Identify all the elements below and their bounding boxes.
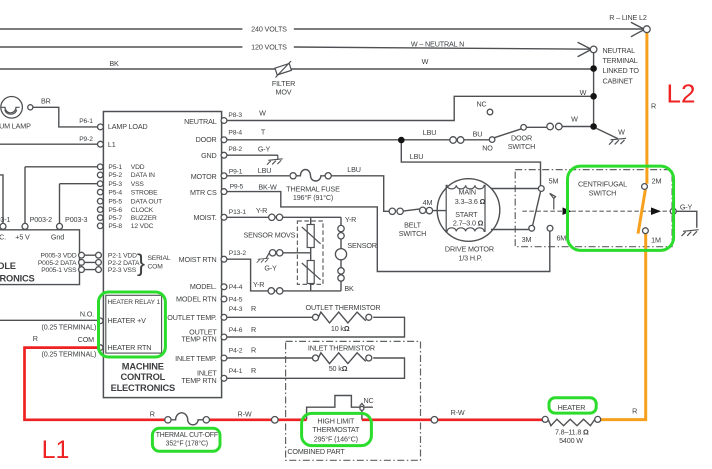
- svg-text:G-Y: G-Y: [258, 144, 271, 153]
- svg-text:BR: BR: [41, 97, 51, 106]
- svg-text:P4-1: P4-1: [229, 368, 243, 375]
- svg-text:G-Y: G-Y: [680, 203, 693, 212]
- svg-text:G-Y: G-Y: [264, 264, 277, 273]
- svg-text:P8-2: P8-2: [228, 146, 242, 153]
- svg-text:TEMP RTN: TEMP RTN: [181, 376, 216, 385]
- svg-text:MOV: MOV: [276, 87, 292, 96]
- svg-text:VDD: VDD: [131, 164, 145, 171]
- svg-text:L1: L1: [108, 140, 116, 149]
- svg-text:5M: 5M: [549, 177, 559, 186]
- svg-text:P5-7: P5-7: [108, 215, 122, 222]
- svg-text:P8-3: P8-3: [228, 112, 242, 119]
- svg-text:CLOCK: CLOCK: [131, 207, 154, 214]
- svg-text:HEATER RELAY 1: HEATER RELAY 1: [108, 299, 161, 306]
- svg-text:T: T: [261, 128, 266, 137]
- svg-text:P9-1: P9-1: [229, 168, 243, 175]
- svg-text:BU: BU: [473, 129, 483, 138]
- svg-text:W: W: [422, 57, 429, 66]
- svg-text:P4-5: P4-5: [229, 296, 243, 303]
- svg-text:TEMP RTN: TEMP RTN: [181, 335, 216, 344]
- svg-text:R: R: [150, 409, 155, 418]
- svg-text:LBU: LBU: [258, 166, 272, 175]
- svg-text:196°F (91°C): 196°F (91°C): [293, 193, 333, 202]
- svg-text:DOOR: DOOR: [196, 135, 217, 144]
- svg-text:240 VOLTS: 240 VOLTS: [251, 25, 287, 34]
- svg-text:Gnd: Gnd: [51, 233, 64, 242]
- svg-text:OUTLET THERMISTOR: OUTLET THERMISTOR: [306, 303, 381, 312]
- svg-text:4M: 4M: [423, 198, 433, 207]
- svg-text:P6-1: P6-1: [79, 118, 93, 125]
- svg-text:ELECTRONICS: ELECTRONICS: [0, 273, 35, 283]
- svg-text:SENSOR MOVS: SENSOR MOVS: [243, 231, 295, 240]
- svg-text:P9-5: P9-5: [230, 183, 244, 190]
- svg-text:LBU: LBU: [423, 128, 437, 137]
- svg-text:NEUTRAL: NEUTRAL: [184, 117, 217, 126]
- svg-text:NC: NC: [363, 396, 373, 405]
- svg-text:3M: 3M: [522, 235, 532, 244]
- svg-text:COM: COM: [148, 264, 164, 271]
- svg-text:295°F (146°C): 295°F (146°C): [314, 434, 358, 443]
- svg-text:L2: L2: [667, 79, 696, 109]
- svg-text:NO: NO: [482, 143, 493, 152]
- svg-text:P2-1 VDD: P2-1 VDD: [108, 253, 137, 260]
- svg-text:P5-2: P5-2: [108, 172, 122, 179]
- svg-text:W: W: [259, 109, 266, 118]
- svg-text:MACHINE: MACHINE: [122, 361, 164, 371]
- svg-text:MODEL RTN: MODEL RTN: [176, 295, 217, 304]
- svg-text:R: R: [251, 366, 256, 375]
- svg-text:LBU: LBU: [347, 165, 361, 174]
- svg-text:THERMAL CUT-OFF: THERMAL CUT-OFF: [156, 432, 218, 439]
- svg-text:NC: NC: [476, 100, 486, 109]
- svg-text:6M: 6M: [556, 234, 566, 243]
- svg-text:BK: BK: [344, 284, 354, 293]
- svg-text:VSS: VSS: [131, 181, 145, 188]
- svg-text:P005-3 VDD: P005-3 VDD: [40, 253, 76, 260]
- svg-text:P5-6: P5-6: [108, 207, 122, 214]
- svg-text:DRUM LAMP: DRUM LAMP: [0, 122, 31, 131]
- svg-text:P003-1: P003-1: [0, 215, 10, 224]
- svg-text:R-W: R-W: [238, 410, 252, 419]
- svg-text:352°F (178°C): 352°F (178°C): [166, 440, 208, 448]
- svg-text:SWITCH: SWITCH: [589, 188, 616, 197]
- svg-text:W: W: [618, 128, 625, 137]
- svg-text:MTR CS: MTR CS: [190, 188, 217, 197]
- svg-text:NEUTRAL: NEUTRAL: [603, 46, 636, 55]
- svg-text:5400 W: 5400 W: [559, 436, 583, 445]
- svg-text:TERMINAL: TERMINAL: [603, 56, 638, 65]
- svg-text:HEATER RTN: HEATER RTN: [108, 343, 152, 352]
- svg-text:LAMP LOAD: LAMP LOAD: [108, 122, 148, 131]
- svg-text:MAIN: MAIN: [459, 187, 476, 196]
- svg-text:P4-2: P4-2: [229, 347, 243, 354]
- svg-text:SWITCH: SWITCH: [508, 142, 535, 151]
- svg-text:(0.25 TERMINAL): (0.25 TERMINAL): [41, 350, 96, 359]
- svg-text:LINKED TO: LINKED TO: [603, 66, 640, 75]
- svg-text:P13-2: P13-2: [229, 250, 247, 257]
- svg-text:Y-R: Y-R: [345, 215, 356, 224]
- svg-text:R: R: [251, 345, 256, 354]
- svg-text:P8-4: P8-4: [228, 130, 242, 137]
- svg-text:R: R: [33, 334, 38, 343]
- svg-text:10 kΩ: 10 kΩ: [331, 324, 350, 333]
- svg-text:Y-R: Y-R: [256, 206, 267, 215]
- svg-text:P4-3: P4-3: [229, 306, 243, 313]
- svg-text:BK: BK: [109, 59, 119, 68]
- svg-text:1M: 1M: [651, 236, 661, 245]
- svg-text:DATA OUT: DATA OUT: [131, 198, 162, 205]
- svg-text:2M: 2M: [652, 177, 662, 186]
- svg-text:2.7–3.0 Ω: 2.7–3.0 Ω: [453, 218, 484, 227]
- svg-text:P13-1: P13-1: [229, 209, 247, 216]
- svg-text:L1: L1: [42, 436, 70, 464]
- svg-text:SWITCH: SWITCH: [399, 229, 426, 238]
- svg-text:R: R: [251, 325, 256, 334]
- svg-text:LBU: LBU: [410, 152, 424, 161]
- svg-text:MODEL.: MODEL.: [190, 282, 217, 291]
- svg-text:P5-4: P5-4: [108, 189, 122, 196]
- svg-text:MOIST.: MOIST.: [194, 213, 217, 222]
- svg-text:DRIVE MOTOR: DRIVE MOTOR: [445, 245, 494, 254]
- svg-text:W – NEUTRAL N: W – NEUTRAL N: [411, 40, 464, 49]
- svg-text:}: }: [137, 250, 145, 277]
- svg-text:INLET THERMISTOR: INLET THERMISTOR: [308, 344, 375, 353]
- svg-text:120 VOLTS: 120 VOLTS: [251, 43, 287, 52]
- svg-text:STROBE: STROBE: [131, 189, 158, 196]
- svg-text:SENSOR: SENSOR: [347, 241, 376, 250]
- svg-text:P5-3: P5-3: [108, 181, 122, 188]
- svg-text:W: W: [580, 88, 587, 97]
- svg-text:Y-R: Y-R: [253, 280, 264, 289]
- svg-text:MOTOR: MOTOR: [191, 172, 217, 181]
- svg-text:R: R: [251, 304, 256, 313]
- svg-text:3.3–3.6 Ω: 3.3–3.6 Ω: [455, 197, 486, 206]
- svg-text:12 VDC: 12 VDC: [131, 223, 154, 230]
- svg-text:HEATER +V: HEATER +V: [108, 316, 147, 325]
- svg-text:P4-4: P4-4: [229, 284, 243, 291]
- svg-text:OUTLET TEMP.: OUTLET TEMP.: [167, 313, 216, 322]
- svg-text:BK-W: BK-W: [258, 182, 277, 191]
- svg-text:N.C.: N.C.: [0, 233, 6, 242]
- svg-text:P005-2 DATA: P005-2 DATA: [38, 260, 77, 267]
- svg-text:ELECTRONICS: ELECTRONICS: [111, 383, 175, 393]
- svg-text:P2-2 DATA: P2-2 DATA: [108, 260, 140, 267]
- svg-text:50 kΩ: 50 kΩ: [329, 364, 348, 373]
- svg-text:CABINET: CABINET: [603, 76, 634, 85]
- svg-text:P003-3: P003-3: [65, 215, 87, 224]
- svg-text:P003-2: P003-2: [30, 215, 52, 224]
- svg-text:P5-8: P5-8: [108, 223, 122, 230]
- svg-text:BUZZER: BUZZER: [131, 215, 157, 222]
- svg-text:R: R: [651, 102, 656, 111]
- svg-text:COM: COM: [78, 335, 94, 344]
- svg-text:P4-6: P4-6: [229, 327, 243, 334]
- svg-text:P5-1: P5-1: [108, 164, 122, 171]
- svg-text:1/3 H.P.: 1/3 H.P.: [458, 254, 482, 263]
- svg-text:MOIST RTN: MOIST RTN: [179, 255, 217, 264]
- svg-text:HEATER: HEATER: [558, 403, 586, 412]
- svg-text:+5 V: +5 V: [15, 233, 30, 242]
- svg-text:CENTRIFUGAL: CENTRIFUGAL: [578, 180, 627, 189]
- svg-text:P9-2: P9-2: [79, 136, 93, 143]
- svg-text:P2-3 VSS: P2-3 VSS: [108, 267, 137, 274]
- svg-text:P005-1 VSS: P005-1 VSS: [41, 267, 77, 274]
- svg-text:COMBINED PART: COMBINED PART: [287, 447, 345, 456]
- svg-text:DATA IN: DATA IN: [131, 172, 155, 179]
- svg-text:P5-5: P5-5: [108, 198, 122, 205]
- svg-text:SERIAL: SERIAL: [148, 255, 171, 262]
- svg-text:CONSOLE: CONSOLE: [0, 261, 16, 271]
- svg-text:GND: GND: [201, 151, 217, 160]
- svg-text:(0.25 TERMINAL): (0.25 TERMINAL): [41, 322, 96, 331]
- svg-text:N.O.: N.O.: [80, 310, 94, 319]
- svg-text:INLET TEMP.: INLET TEMP.: [175, 354, 217, 363]
- svg-text:R-W: R-W: [451, 408, 465, 417]
- svg-text:R – LINE L2: R – LINE L2: [609, 13, 647, 22]
- svg-text:CONTROL: CONTROL: [121, 372, 166, 382]
- svg-text:W: W: [571, 115, 578, 124]
- svg-text:THERMOSTAT: THERMOSTAT: [312, 425, 360, 434]
- svg-text:R: R: [632, 406, 637, 415]
